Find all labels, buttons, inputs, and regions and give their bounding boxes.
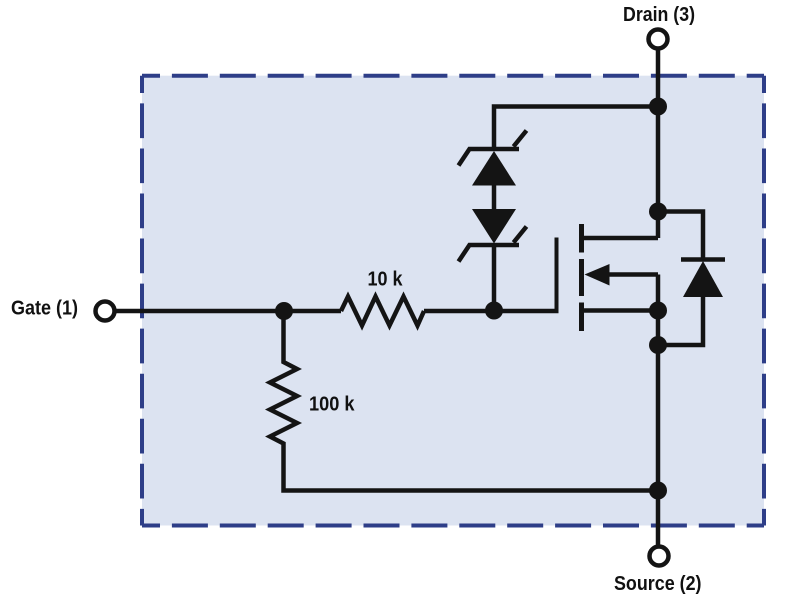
wire body diode top branch [658,212,703,260]
zener diode D2 triangle [472,209,516,244]
MOSFET gate electrode [555,238,559,314]
terminal Drain (3) [649,30,668,49]
junction node body-diode anode [649,336,667,354]
junction node zener/gate [485,302,503,320]
MOSFET channel bottom segment [579,303,584,332]
IC boundary dashed top edge [142,74,764,78]
MOSFET body arrow head [585,264,610,286]
svg-text:Drain (3): Drain (3) [623,4,695,26]
IC boundary dashed right edge [762,76,766,526]
wire zener middle link [492,184,497,211]
wire MOSFET drain [582,236,659,241]
IC boundary dashed bottom edge [142,524,764,528]
junction node gate/100k [275,302,293,320]
junction node drain/zener [649,98,667,116]
wire body diode bottom branch [658,296,703,345]
svg-text:100 k: 100 k [309,393,355,415]
zener diode D2 anode bar [459,227,527,262]
svg-text:Gate (1): Gate (1) [11,297,78,319]
MOSFET channel middle segment [579,259,584,296]
MOSFET channel top segment [579,224,584,253]
IC boundary fill [142,76,764,526]
wire MOSFET body connection [608,272,658,277]
svg-text:Source (2): Source (2) [614,573,702,595]
wire zener to gate node [492,243,497,311]
terminal Gate (1) [96,302,115,321]
wire source rail bottom [656,275,661,547]
wire 10k to MOSFET gate [424,309,559,314]
IC boundary dashed left edge [140,76,144,526]
wire zener branch top [494,107,658,151]
body diode cathode bar [681,257,725,262]
junction node source line [649,302,667,320]
wire gate lead [116,309,341,314]
wire drain rail top [656,49,661,238]
body diode triangle [683,261,723,297]
junction node drain/body-diode [649,203,667,221]
resistor 10 k [341,297,424,326]
zener diode D1 triangle [472,151,516,186]
zener diode D1 cathode bar [459,131,527,166]
resistor 100 k with wires [270,309,658,491]
wire MOSFET source [582,308,659,313]
svg-text:10 k: 10 k [368,269,404,291]
terminal Source (2) [650,547,669,566]
junction node source/100k [649,482,667,500]
